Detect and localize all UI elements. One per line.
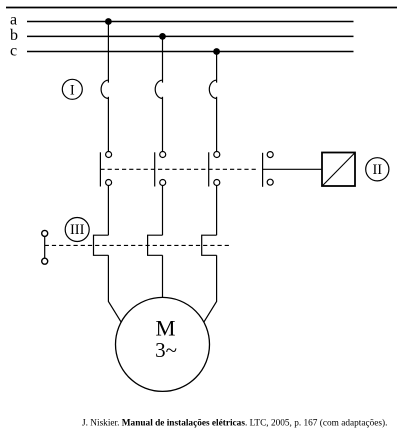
junction dot on phase a [105, 18, 112, 25]
svg-text:a: a [10, 11, 17, 28]
wire fuse F3 to contact [216, 97, 218, 152]
overload heater element OL1 [94, 235, 109, 255]
wire overload OL1 to motor [108, 255, 121, 322]
contactor auxiliary contact [263, 152, 274, 187]
contactor main contact pole 2 [155, 152, 166, 187]
contactor linkage (dashed) [100, 168, 257, 170]
wire contact pole 3 to overload [216, 186, 218, 236]
overload trip contact (control terminals) [42, 230, 48, 264]
motor M 3~ [116, 297, 210, 391]
contactor coil box [322, 153, 355, 187]
label I (fuse group) [62, 79, 82, 99]
svg-text:M: M [155, 316, 175, 341]
junction dot on phase c [213, 48, 220, 55]
label II (contactor) [366, 158, 389, 181]
phase bus c (wire) [27, 51, 354, 53]
wire fuse F1 to contact [107, 97, 109, 152]
fuse F2 [155, 80, 162, 98]
overload linkage (dashed) [45, 244, 229, 246]
junction dot on phase b [159, 33, 166, 40]
wire phase b drop [162, 36, 164, 82]
phase bus b (wire) [27, 35, 354, 37]
svg-text:3~: 3~ [155, 338, 177, 362]
svg-text:III: III [70, 222, 85, 238]
svg-text:c: c [10, 42, 17, 59]
svg-text:I: I [70, 82, 75, 98]
phase bus a (wire) [27, 21, 354, 23]
label III (overload relay) [65, 218, 89, 242]
fuse F1 [101, 80, 108, 98]
svg-text:b: b [10, 27, 18, 44]
wire phase c drop [216, 52, 218, 83]
overload heater element OL2 [148, 235, 163, 255]
fuse F3 [209, 80, 216, 98]
overload heater element OL3 [202, 235, 217, 255]
svg-text:J. Niskier. Manual de instalaç: J. Niskier. Manual de instalações elétri… [82, 417, 387, 428]
contactor main contact pole 1 [100, 152, 111, 187]
contactor main contact pole 3 [209, 152, 220, 187]
svg-text:II: II [372, 162, 382, 178]
wire aux contact to coil [263, 168, 322, 170]
wire contact pole 2 to overload [162, 186, 164, 236]
top border rule [6, 7, 397, 9]
wire contact pole 1 to overload [107, 186, 109, 236]
wire overload OL3 to motor [204, 255, 217, 322]
wire phase a drop [107, 22, 109, 83]
wire overload OL2 to motor [162, 255, 164, 297]
wire fuse F2 to contact [162, 97, 164, 152]
